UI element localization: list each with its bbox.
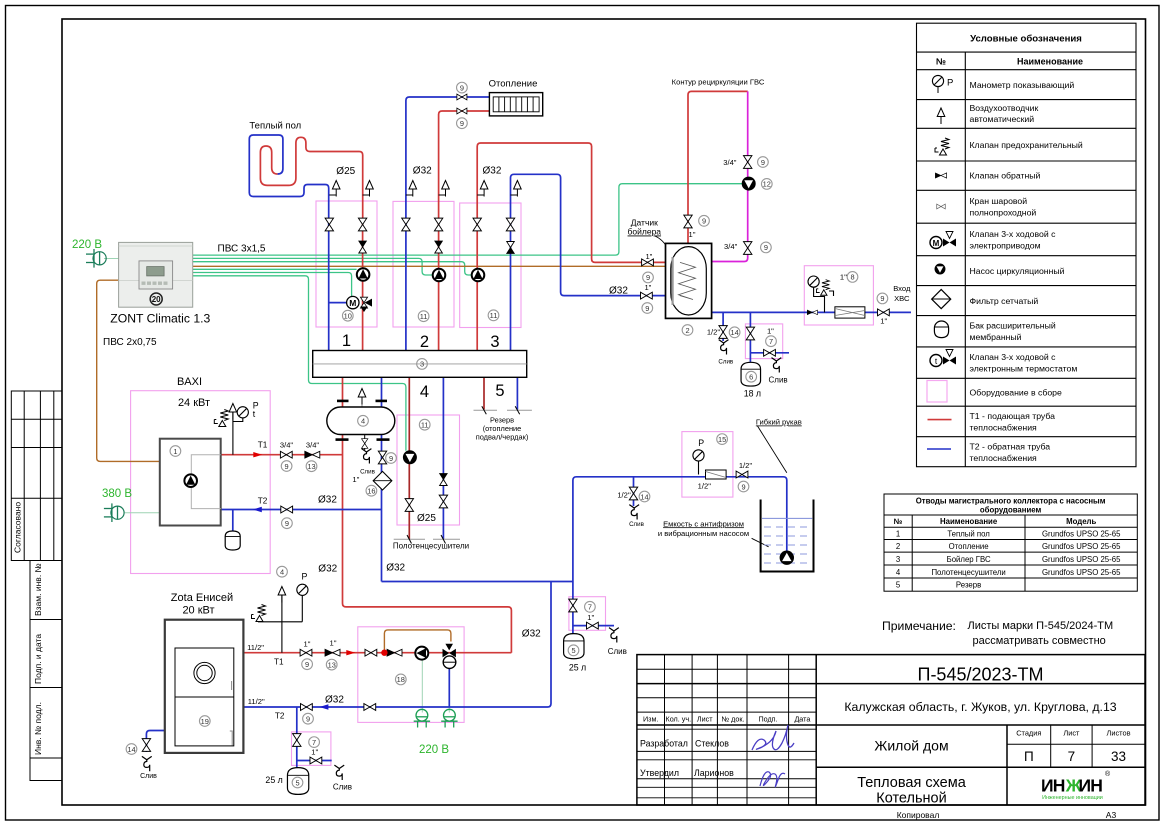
brown wires <box>97 266 671 651</box>
svg-text:Инженерные инновации: Инженерные инновации <box>1042 795 1103 801</box>
valve 9 XBC inlet 1" <box>878 309 890 316</box>
svg-text:электроприводом: электроприводом <box>970 241 1041 251</box>
svg-text:9: 9 <box>306 715 310 724</box>
BAXI manometer <box>237 407 248 418</box>
svg-text:Полотенцесушители: Полотенцесушители <box>393 542 469 551</box>
svg-text:5: 5 <box>896 581 901 590</box>
box BAXI <box>131 391 271 574</box>
svg-text:Ø25: Ø25 <box>336 166 355 177</box>
towel pump <box>403 451 416 464</box>
svg-text:M: M <box>349 298 356 308</box>
svg-text:Манометр показывающий: Манометр показывающий <box>970 80 1075 90</box>
BAXI T2 <box>221 509 382 511</box>
pump branch2 heating <box>433 269 446 282</box>
socket symbols <box>414 709 430 727</box>
drain drop 1 <box>722 312 724 341</box>
svg-text:Инв. № подл.: Инв. № подл. <box>33 702 43 755</box>
svg-text:Отопление: Отопление <box>949 542 989 551</box>
svg-text:9: 9 <box>702 217 706 226</box>
svg-text:Клапан 3-х ходовой с: Клапан 3-х ходовой с <box>970 229 1057 239</box>
svg-text:9: 9 <box>389 454 393 463</box>
signatures <box>752 725 794 750</box>
pos 15 fill group <box>717 434 728 445</box>
branch 3 blue riser to DHW boiler <box>511 174 680 350</box>
valve 9 boiler T2 1" <box>641 292 653 299</box>
svg-text:11: 11 <box>420 312 428 321</box>
svg-text:ПВС 3х1,5: ПВС 3х1,5 <box>218 244 266 255</box>
box 7c <box>292 732 331 766</box>
valve 9 recirc 3/4" lower <box>744 242 752 255</box>
fill line damper <box>706 470 727 479</box>
check valve 13 BAXI T1 <box>305 451 320 458</box>
pos 11 towel pump group <box>419 419 430 430</box>
svg-text:Ø32: Ø32 <box>318 564 337 575</box>
pos 3 collector <box>417 359 428 370</box>
valve tank 5b drain <box>587 622 599 629</box>
svg-text:9: 9 <box>646 273 650 282</box>
valve branch2 red riser <box>434 218 442 231</box>
svg-text:Тепловая схема: Тепловая схема <box>857 775 967 791</box>
svg-text:Т2 - обратная труба: Т2 - обратная труба <box>970 442 1051 452</box>
manometer 15 <box>693 450 704 461</box>
svg-text:подвал/чердак): подвал/чердак) <box>476 433 529 442</box>
svg-text:1/2'': 1/2'' <box>707 328 721 337</box>
svg-text:Наименование: Наименование <box>1017 57 1083 67</box>
svg-text:9: 9 <box>460 83 464 92</box>
svg-text:Слив: Слив <box>629 521 645 528</box>
BAXI T1 <box>221 454 343 456</box>
svg-text:9: 9 <box>880 294 884 303</box>
svg-text:9: 9 <box>285 519 289 528</box>
INZHIN logo <box>1041 770 1111 801</box>
BAXI boiler 1 <box>160 439 221 526</box>
DHW recirculation red <box>688 91 748 243</box>
pos 9 radiator red valve <box>457 118 468 129</box>
svg-text:1'': 1'' <box>329 639 337 648</box>
svg-text:Подп. и дата: Подп. и дата <box>33 634 43 684</box>
branch 2 red riser / radiator supply <box>439 111 490 351</box>
svg-text:P: P <box>947 78 953 89</box>
svg-text:Дата: Дата <box>794 715 810 724</box>
valve 9 radiator red <box>457 108 467 114</box>
hydraulic separator 4 <box>327 407 395 435</box>
svg-text:20 кВт: 20 кВт <box>182 605 214 617</box>
legend pump <box>935 264 945 274</box>
svg-text:18 л: 18 л <box>744 389 761 399</box>
cold water main <box>712 311 911 313</box>
drain fill line <box>629 505 639 520</box>
svg-text:4: 4 <box>361 417 365 426</box>
svg-text:Примечание:: Примечание: <box>882 619 956 633</box>
pos 9 recirc upper valve <box>758 157 769 168</box>
pos 5 Zota expansion tank <box>292 777 303 788</box>
heating radiator <box>489 93 542 116</box>
svg-text:Условные обозначения: Условные обозначения <box>970 34 1082 45</box>
svg-text:Насос циркуляционный: Насос циркуляционный <box>970 266 1065 276</box>
thermo 3-way valve mixing <box>443 644 457 669</box>
svg-text:Листы марки П-545/2024-ТМ: Листы марки П-545/2024-ТМ <box>968 620 1114 632</box>
svg-text:теплоснабжения: теплоснабжения <box>970 453 1038 463</box>
pos 9 radiator blue valve <box>457 82 468 93</box>
pos 9 XBC valve <box>877 293 888 304</box>
svg-text:Клапан обратный: Клапан обратный <box>970 171 1041 181</box>
valve 7 tank 6 line <box>746 327 754 340</box>
svg-text:Вход: Вход <box>893 284 911 293</box>
380V plug <box>104 503 124 522</box>
svg-text:рассматривать совместно: рассматривать совместно <box>973 635 1106 647</box>
legend exp tank <box>934 321 948 338</box>
svg-text:ИН: ИН <box>1079 776 1103 796</box>
svg-text:Подп.: Подп. <box>758 715 777 724</box>
break marks reserve <box>474 406 532 414</box>
wire to BAXI <box>97 280 160 461</box>
svg-text:1: 1 <box>173 447 177 456</box>
svg-text:5: 5 <box>571 646 575 655</box>
pos 7 tank 6 valve group <box>766 336 777 347</box>
pos 4 hydraulic separator <box>358 415 369 426</box>
svg-text:9: 9 <box>645 304 649 313</box>
branch 5 blue reserve <box>516 377 518 409</box>
BAXI safety valve <box>214 410 228 427</box>
svg-text:Наименование: Наименование <box>940 517 998 526</box>
svg-text:M: M <box>933 239 940 248</box>
svg-text:Изм.: Изм. <box>643 715 658 724</box>
node labels big digits <box>342 332 505 401</box>
expansion tank 5b <box>564 634 584 659</box>
flexible hose leader <box>757 426 787 473</box>
svg-text:Zota Енисей: Zota Енисей <box>171 592 233 604</box>
svg-text:1'': 1'' <box>352 475 360 484</box>
svg-text:2: 2 <box>685 326 689 335</box>
valve 9 boiler T1 1" <box>642 259 654 266</box>
svg-text:Ø32: Ø32 <box>609 286 628 297</box>
pos 9 boiler T2 valve <box>642 303 653 314</box>
left stamp strip <box>11 391 62 781</box>
svg-text:220 В: 220 В <box>419 744 449 756</box>
svg-text:2: 2 <box>420 333 429 351</box>
thermo valve blue drop <box>448 660 450 707</box>
svg-text:15: 15 <box>718 435 726 444</box>
pos 9 BAXI T2 valve <box>282 518 293 529</box>
svg-text:9: 9 <box>764 243 768 252</box>
separator drain <box>362 449 372 464</box>
vertical valves <box>142 156 754 752</box>
DHW boiler tank 2 <box>666 243 712 318</box>
svg-text:Кран шаровой: Кран шаровой <box>970 196 1028 206</box>
svg-text:ИН: ИН <box>1041 776 1065 796</box>
svg-text:7: 7 <box>769 337 773 346</box>
svg-text:Лист: Лист <box>697 715 713 724</box>
BAXI exp tank drop <box>232 510 234 532</box>
svg-text:5: 5 <box>495 382 504 400</box>
branch 4 towel red riser <box>408 377 410 539</box>
svg-text:4: 4 <box>896 568 901 577</box>
svg-text:ХВС: ХВС <box>894 294 910 303</box>
Zota manometer <box>297 584 308 595</box>
dark red towel branch <box>409 377 484 539</box>
pump branch1 floor <box>357 268 370 281</box>
grey stems <box>362 397 365 451</box>
pos 13 Zota check valve <box>326 659 337 670</box>
svg-text:11/2": 11/2" <box>247 643 264 652</box>
svg-text:Котельной: Котельной <box>876 791 946 807</box>
check valve towel blue <box>440 474 448 486</box>
svg-text:Резерв: Резерв <box>956 581 981 590</box>
svg-text:1: 1 <box>342 332 351 350</box>
check valve branch1 red <box>359 241 367 253</box>
legend ball valve <box>937 204 945 209</box>
svg-text:Теплый пол: Теплый пол <box>249 121 301 132</box>
valve towel red riser <box>405 499 413 512</box>
svg-text:Слив: Слив <box>333 782 352 791</box>
branch 2 blue riser / radiator return <box>406 97 490 351</box>
svg-text:3/4": 3/4" <box>280 441 294 450</box>
svg-text:Ø32: Ø32 <box>413 166 432 177</box>
pink equipment boxes <box>131 201 874 765</box>
svg-text:1": 1" <box>767 326 774 335</box>
pos 9 BAXI T1 valve <box>281 461 292 472</box>
valve Zota tank drain <box>310 757 322 764</box>
svg-text:4: 4 <box>280 568 284 577</box>
pos 14 boiler drain valve <box>729 327 740 338</box>
svg-text:9: 9 <box>305 660 309 669</box>
svg-text:1'': 1'' <box>840 273 848 282</box>
svg-text:9: 9 <box>741 482 745 491</box>
exp tank 6 drop <box>749 312 751 362</box>
valve 14 Zota left drain <box>142 739 150 752</box>
valve branch1 red riser <box>358 218 366 231</box>
svg-text:3/4": 3/4" <box>306 441 320 450</box>
valve 9 Zota T2 1" <box>301 704 313 711</box>
check valve branch3 blue <box>507 242 515 254</box>
drain Zota left <box>142 756 152 771</box>
fill line drain drop <box>633 477 635 506</box>
svg-text:Гибкий рукав: Гибкий рукав <box>756 418 802 427</box>
box 7b <box>569 597 606 631</box>
svg-text:№: № <box>936 57 946 67</box>
legend table <box>917 23 1137 467</box>
svg-text:полнопроходной: полнопроходной <box>970 208 1037 218</box>
main blue riser collector-separator-drain <box>381 377 383 581</box>
svg-text:Ø32: Ø32 <box>386 563 405 574</box>
branch 1 red riser <box>362 218 364 351</box>
box towel rail group <box>397 415 460 525</box>
box group 2 heating pump <box>393 201 454 327</box>
svg-text:19: 19 <box>201 717 209 726</box>
wire boiler sensor <box>193 265 671 267</box>
svg-text:T2: T2 <box>258 496 268 505</box>
legend thermo 3-way valve <box>930 350 956 367</box>
svg-text:1/2'': 1/2'' <box>739 461 753 470</box>
svg-text:П: П <box>1024 749 1034 764</box>
XBC manometer <box>808 276 819 287</box>
pos 9 DHW boiler top valve <box>699 215 710 226</box>
svg-text:1": 1" <box>304 639 311 648</box>
antifreeze label leader <box>752 538 769 547</box>
svg-text:Взам. инв. №: Взам. инв. № <box>33 563 43 616</box>
flow arrow BAXI T2 <box>253 507 262 512</box>
svg-text:1": 1" <box>644 283 651 292</box>
pos 9 Zota T2 valve <box>303 713 314 724</box>
pos 9 boiler T1 valve <box>643 272 654 283</box>
svg-text:бойлера: бойлера <box>628 227 662 237</box>
valve 7 Zota tank line <box>293 734 301 747</box>
drain boiler bottom <box>719 340 729 355</box>
XBC manometer + safety drop <box>814 287 825 312</box>
svg-text:Кол. уч.: Кол. уч. <box>666 715 692 724</box>
svg-text:1'': 1'' <box>688 230 696 239</box>
svg-text:автоматический: автоматический <box>970 114 1035 124</box>
svg-text:№: № <box>894 517 903 526</box>
svg-text:9: 9 <box>285 462 289 471</box>
svg-text:9: 9 <box>460 119 464 128</box>
valve 9 DHW boiler top 1" <box>684 215 692 228</box>
mixing return riser <box>243 582 551 708</box>
collector table <box>884 494 1137 591</box>
box 15 <box>682 432 733 498</box>
circled numbers <box>126 82 888 788</box>
svg-text:11/2": 11/2" <box>248 697 265 706</box>
svg-text:Фильтр сетчатый: Фильтр сетчатый <box>970 296 1039 306</box>
svg-text:12: 12 <box>763 180 771 189</box>
svg-text:Слив: Слив <box>769 376 788 385</box>
svg-text:18: 18 <box>397 675 405 684</box>
box 7a <box>745 324 782 359</box>
pos 5 tank 5b <box>568 645 579 656</box>
legend T2 blue line <box>927 448 951 450</box>
Zota safety group lines <box>281 595 283 653</box>
svg-text:Калужская область, г. Жуков, у: Калужская область, г. Жуков, ул. Круглов… <box>844 700 1116 714</box>
svg-text:Ø32: Ø32 <box>483 166 502 177</box>
horizontal valves <box>280 94 889 764</box>
Zota left drain <box>146 731 164 753</box>
svg-text:13: 13 <box>328 660 336 669</box>
svg-text:Емкость с антифризом: Емкость с антифризом <box>663 519 744 528</box>
svg-text:16: 16 <box>367 487 375 496</box>
check valve XBC inlet <box>807 310 817 315</box>
svg-text:3/4": 3/4" <box>724 242 738 251</box>
flow arrow Zota T1 <box>346 650 355 655</box>
svg-text:теплоснабжения: теплоснабжения <box>970 423 1038 433</box>
svg-text:мембранный: мембранный <box>970 332 1022 342</box>
svg-text:Т1 - подающая труба: Т1 - подающая труба <box>970 411 1056 421</box>
svg-text:2: 2 <box>896 542 900 551</box>
svg-text:Клапан предохранительный: Клапан предохранительный <box>970 140 1083 150</box>
magenta recirculation <box>712 91 748 261</box>
svg-text:10: 10 <box>344 312 352 321</box>
diameter labels <box>318 166 635 706</box>
Zota boiler 19 <box>165 620 244 753</box>
svg-text:P: P <box>302 572 308 582</box>
valve towel blue riser <box>439 495 447 508</box>
svg-text:Модель: Модель <box>1066 517 1096 526</box>
svg-text:14: 14 <box>127 745 135 754</box>
valve 9 Zota T1 1" <box>300 649 312 656</box>
svg-text:220 В: 220 В <box>72 239 102 251</box>
svg-text:T1: T1 <box>274 657 284 666</box>
svg-text:Клапан 3-х ходовой с: Клапан 3-х ходовой с <box>970 352 1057 362</box>
expansion tank 6 <box>741 362 761 386</box>
pos 12 recirculation pump <box>761 179 772 190</box>
pos 9 fill line valve <box>738 481 749 492</box>
antifreeze fill line <box>573 477 787 634</box>
svg-text:1/2": 1/2" <box>698 481 712 490</box>
pos 11 DHW pump group <box>488 310 499 321</box>
pos 18 mixing unit <box>395 674 406 685</box>
svg-text:1/2'': 1/2'' <box>617 490 631 499</box>
svg-text:П-545/2023-ТМ: П-545/2023-ТМ <box>918 665 1044 685</box>
svg-text:А3: А3 <box>1106 810 1117 820</box>
svg-text:Ø32: Ø32 <box>318 495 337 506</box>
valve 14 fill line drain 1/2" <box>629 487 637 500</box>
svg-text:Оборудование в сборе: Оборудование в сборе <box>970 388 1063 398</box>
pos 13 BAXI check valve <box>306 461 317 472</box>
svg-text:1": 1" <box>645 252 652 261</box>
svg-text:33: 33 <box>1111 749 1126 764</box>
wire to pump 1 <box>193 268 357 270</box>
svg-text:оборудованием: оборудованием <box>980 506 1042 515</box>
blue T2 pipes <box>146 97 911 767</box>
svg-text:1'': 1'' <box>587 613 595 622</box>
recirculation pump 12 <box>742 177 755 190</box>
TITLEBLOCK <box>637 655 1145 805</box>
legend air vent <box>937 108 945 124</box>
pos 14 fill drain valve <box>639 491 650 502</box>
branch 5 red reserve <box>483 377 485 409</box>
svg-text:Контур рециркуляции ГВС: Контур рециркуляции ГВС <box>672 78 765 87</box>
ZONT controller 20 <box>119 242 193 307</box>
Zota air vent <box>278 587 286 603</box>
antifreeze container <box>761 500 814 572</box>
tank 5b stub <box>573 625 614 627</box>
valve 9 BAXI T2 <box>281 506 293 513</box>
svg-text:Ларионов: Ларионов <box>694 768 734 778</box>
svg-text:№ док.: № док. <box>721 715 744 724</box>
legend T1 red line <box>928 419 952 421</box>
wire to pump 2 <box>193 258 433 275</box>
valve mixing unit red inlet <box>365 649 377 656</box>
BAXI pump <box>184 474 197 487</box>
valve 9 radiator blue <box>457 94 467 100</box>
T labels <box>258 440 285 720</box>
svg-text:Grundfos UPSO 25-65: Grundfos UPSO 25-65 <box>1042 568 1121 577</box>
branch 3 red riser to DHW boiler <box>477 143 679 351</box>
mixing pump <box>415 647 428 660</box>
svg-text:®: ® <box>1105 770 1111 778</box>
red T1 pipes <box>221 91 748 652</box>
BAXI air vent <box>229 404 237 420</box>
svg-text:14: 14 <box>640 492 648 501</box>
svg-text:P: P <box>698 438 704 448</box>
pos 7 Zota tank valve group <box>309 737 320 748</box>
pos 9 separator drain valve <box>386 453 397 464</box>
branch air vents <box>329 181 521 197</box>
pos 11 heating pump group <box>418 311 429 322</box>
svg-text:Бойлер ГВС: Бойлер ГВС <box>947 555 991 564</box>
check valve mixing unit <box>387 649 402 656</box>
floor loop blue <box>249 135 328 351</box>
legend manometer <box>932 75 953 93</box>
svg-text:Ø32: Ø32 <box>522 629 541 640</box>
svg-text:Согласовано: Согласовано <box>13 502 23 553</box>
M valve blue stub <box>329 302 348 304</box>
svg-text:Утвердил: Утвердил <box>640 768 679 778</box>
svg-text:Слив: Слив <box>140 773 157 780</box>
svg-text:20: 20 <box>152 295 161 304</box>
pale pump supply wires <box>104 259 449 713</box>
wire to pump 3 <box>193 262 472 275</box>
separator drain stem <box>364 435 366 451</box>
